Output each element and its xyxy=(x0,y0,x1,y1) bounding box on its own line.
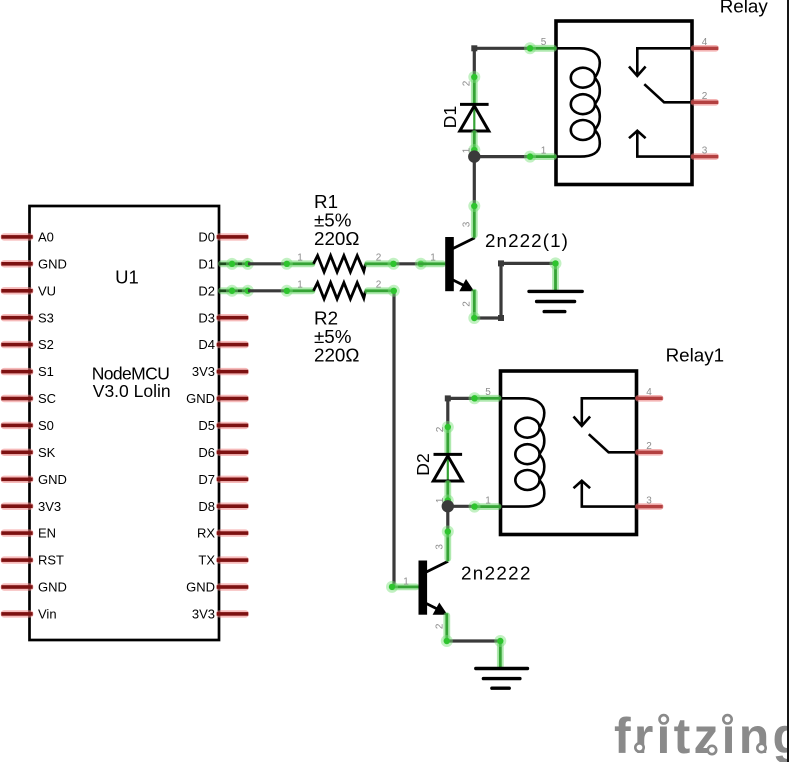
U1 left pin SK xyxy=(1,449,34,456)
svg-text:S1: S1 xyxy=(38,364,54,379)
node B junction dot xyxy=(442,500,454,512)
transistor Q2 bar xyxy=(419,561,428,615)
U1 left pin RST xyxy=(1,556,34,563)
svg-text:1: 1 xyxy=(541,145,547,156)
svg-text:S3: S3 xyxy=(38,310,54,325)
svg-text:GND: GND xyxy=(38,472,67,487)
relay Relay pin 4 xyxy=(691,45,720,52)
svg-text:5: 5 xyxy=(485,387,491,398)
svg-text:RX: RX xyxy=(197,526,215,541)
svg-text:220Ω: 220Ω xyxy=(314,345,359,366)
relay Relay1 NC contact arrow xyxy=(582,398,637,425)
transistor Q2 emitter leg xyxy=(443,612,450,642)
relay Relay body xyxy=(556,21,692,185)
wire D2 cathode to Relay1 pin5 xyxy=(448,398,473,427)
U1 left pin A0 xyxy=(1,233,34,240)
svg-text:2: 2 xyxy=(435,623,446,629)
svg-text:3: 3 xyxy=(462,221,473,227)
right edge border line xyxy=(787,0,789,762)
svg-text:3: 3 xyxy=(702,145,708,156)
wire R1 to Q1 base xyxy=(394,262,420,265)
svg-text:3V3: 3V3 xyxy=(192,607,215,622)
resistor R2 leg right xyxy=(364,287,394,294)
svg-text:Relay: Relay xyxy=(720,0,769,16)
svg-text:3: 3 xyxy=(435,544,446,550)
svg-text:VU: VU xyxy=(38,283,56,298)
svg-text:D8: D8 xyxy=(198,499,215,514)
svg-text:1: 1 xyxy=(485,495,491,506)
diode D2 cathode bar xyxy=(434,453,463,456)
U1 right pin D6 xyxy=(216,449,249,456)
svg-text:GND: GND xyxy=(38,580,67,595)
diode D2 cathode leg xyxy=(444,426,451,456)
U1 right pin D1 (connected, green) xyxy=(218,260,249,267)
diode D1 internal line xyxy=(473,105,475,132)
resistor R2 leg left xyxy=(286,287,316,294)
wire R2 down to Q2 base xyxy=(392,291,395,587)
relay Relay NO contact arrow xyxy=(637,131,692,157)
wire Q1 emitter to ground GND1 xyxy=(474,263,555,318)
diode D2 triangle xyxy=(433,456,462,481)
U1 left pin S3 xyxy=(1,314,34,321)
svg-text:S2: S2 xyxy=(38,337,54,352)
transistor Q2 base leg xyxy=(390,584,420,591)
svg-text:1: 1 xyxy=(297,280,303,291)
svg-text:220Ω: 220Ω xyxy=(314,228,359,249)
resistor R1 leg left xyxy=(286,260,316,267)
relay Relay1 coil xyxy=(501,398,545,506)
svg-text:2: 2 xyxy=(462,301,473,307)
svg-text:D4: D4 xyxy=(198,337,215,352)
svg-text:D0: D0 xyxy=(198,230,215,245)
svg-text:GND: GND xyxy=(186,391,215,406)
relay Relay pin 3 xyxy=(691,153,720,160)
relay Relay1 pin 2 xyxy=(635,449,664,456)
svg-text:3: 3 xyxy=(646,495,652,506)
svg-text:GND: GND xyxy=(38,256,67,271)
ground GND2 symbol xyxy=(476,667,528,670)
U1 right pin 3V3 xyxy=(216,368,249,375)
U1 right pin D2 (connected, green) xyxy=(218,287,249,294)
ground GND1 leg xyxy=(552,262,559,292)
svg-text:D6: D6 xyxy=(198,445,215,460)
wire D1 cathode to Relay pin5 xyxy=(474,48,527,77)
U1 left pin S1 xyxy=(1,368,34,375)
U1 left pin GND xyxy=(1,583,34,590)
svg-text:RST: RST xyxy=(38,553,64,568)
svg-text:SK: SK xyxy=(38,445,56,460)
svg-text:2: 2 xyxy=(702,91,708,102)
svg-text:U1: U1 xyxy=(115,266,139,287)
wire Q2 emitter to ground GND2 xyxy=(447,639,501,642)
svg-text:2: 2 xyxy=(376,280,382,291)
IC U1 NodeMCU body xyxy=(30,206,220,640)
wire U1.D1 to R1 xyxy=(248,262,287,265)
svg-text:4: 4 xyxy=(702,37,708,48)
svg-text:GND: GND xyxy=(186,580,215,595)
U1 right pin RX xyxy=(216,529,249,536)
svg-text:4: 4 xyxy=(646,387,652,398)
svg-text:3V3: 3V3 xyxy=(38,499,61,514)
resistor R1 zigzag xyxy=(314,256,366,272)
U1 left pin S2 xyxy=(1,341,34,348)
svg-text:2: 2 xyxy=(376,253,382,264)
svg-text:D5: D5 xyxy=(198,418,215,433)
svg-text:Vin: Vin xyxy=(38,607,57,622)
relay Relay1 NO contact arrow xyxy=(582,481,637,507)
U1 right pin D3 xyxy=(216,314,249,321)
svg-text:EN: EN xyxy=(38,526,56,541)
svg-text:5: 5 xyxy=(541,37,547,48)
transistor Q2 collector leg xyxy=(444,531,451,563)
node A junction dot xyxy=(468,150,480,162)
U1 right pin GND xyxy=(216,395,249,402)
svg-text:1: 1 xyxy=(403,576,409,587)
transistor Q1 emitter line and arrow xyxy=(453,280,465,286)
svg-text:D2: D2 xyxy=(413,453,433,475)
diode D1 triangle xyxy=(460,106,489,131)
transistor Q1 base leg xyxy=(417,260,446,267)
svg-text:D7: D7 xyxy=(198,472,215,487)
wire node A down to Q1 collector xyxy=(473,157,476,206)
svg-text:D1: D1 xyxy=(198,256,215,271)
relay Relay common blade xyxy=(644,84,692,102)
U1 right pin D0 xyxy=(216,233,249,240)
svg-text:2n2222: 2n2222 xyxy=(461,562,532,583)
U1 right pin D5 xyxy=(216,422,249,429)
svg-text:A0: A0 xyxy=(38,230,54,245)
svg-text:D2: D2 xyxy=(198,283,215,298)
relay Relay coil xyxy=(556,48,600,156)
U1 left pin SC xyxy=(1,395,34,402)
svg-text:S0: S0 xyxy=(38,418,54,433)
transistor Q2 emitter line and arrow xyxy=(426,603,438,609)
U1 left pin GND xyxy=(1,260,34,267)
svg-text:Relay1: Relay1 xyxy=(666,345,724,366)
diode D2 internal line xyxy=(447,455,449,482)
svg-text:2: 2 xyxy=(646,441,652,452)
resistor R2 zigzag xyxy=(314,283,366,299)
U1 right pin D8 xyxy=(216,503,249,510)
transistor Q1 collector line xyxy=(453,238,475,249)
transistor Q1 bar xyxy=(445,237,454,291)
svg-text:3V3: 3V3 xyxy=(192,364,215,379)
relay Relay pin 5 leg xyxy=(527,45,557,52)
relay Relay1 common blade xyxy=(589,434,637,452)
relay Relay pin 2 xyxy=(691,99,720,106)
transistor Q1 emitter leg xyxy=(471,289,478,319)
svg-text:SC: SC xyxy=(38,391,56,406)
U1 right pin D4 xyxy=(216,341,249,348)
U1 right pin TX xyxy=(216,556,249,563)
wire node B down to Q2 collector xyxy=(446,506,449,531)
U1 right pin 3V3 xyxy=(216,610,249,617)
U1 left pin 3V3 xyxy=(1,503,34,510)
U1 right pin GND xyxy=(216,583,249,590)
relay Relay1 pin 4 xyxy=(635,395,664,402)
svg-text:fritzing: fritzing xyxy=(614,708,789,762)
wire node A to Relay pin1 xyxy=(474,155,527,158)
U1 left pin Vin xyxy=(1,610,34,617)
relay Relay1 pin 1 leg xyxy=(471,503,501,510)
resistor R1 leg right xyxy=(364,260,394,267)
ground GND2 leg xyxy=(497,640,504,669)
svg-text:D3: D3 xyxy=(198,310,215,325)
relay Relay NC contact arrow xyxy=(637,48,692,75)
svg-text:2: 2 xyxy=(435,426,446,432)
wire node B to Relay1 pin1 xyxy=(448,505,473,508)
svg-text:D1: D1 xyxy=(440,106,460,128)
diode D1 cathode leg xyxy=(471,76,478,106)
transistor Q2 collector line xyxy=(426,561,448,572)
U1 left pin VU xyxy=(1,287,34,294)
relay Relay pin 1 leg xyxy=(527,153,557,160)
svg-text:V3.0 Lolin: V3.0 Lolin xyxy=(93,381,171,401)
diode D2 anode leg xyxy=(444,480,451,507)
svg-text:2: 2 xyxy=(462,80,473,86)
ground GND1 symbol xyxy=(529,290,582,293)
transistor Q1 collector leg xyxy=(471,205,478,239)
relay Relay1 pin 5 leg xyxy=(471,395,501,402)
wire U1.D2 to R2 xyxy=(248,289,287,292)
diode D1 anode leg xyxy=(471,130,478,158)
relay Relay1 body xyxy=(501,371,637,535)
diode D1 cathode bar xyxy=(460,103,489,106)
relay Relay1 pin 3 xyxy=(635,503,664,510)
svg-text:TX: TX xyxy=(198,553,215,568)
U1 left pin EN xyxy=(1,529,34,536)
U1 left pin GND xyxy=(1,476,34,483)
svg-text:2n222(1): 2n222(1) xyxy=(485,230,569,251)
svg-text:1: 1 xyxy=(297,253,303,264)
U1 left pin S0 xyxy=(1,422,34,429)
U1 right pin D7 xyxy=(216,476,249,483)
